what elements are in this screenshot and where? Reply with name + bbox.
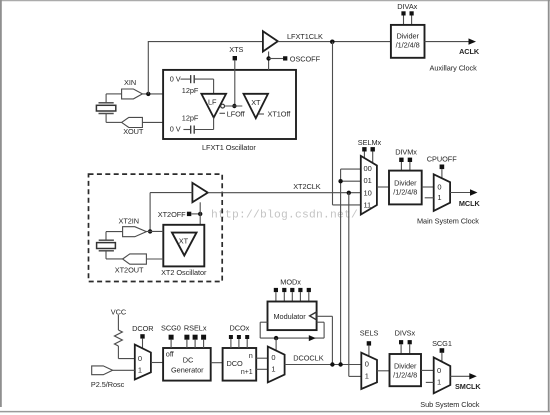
svg-text:0 V: 0 V (170, 125, 181, 134)
svg-text:CPUOFF: CPUOFF (427, 154, 457, 163)
svg-text:DCO: DCO (227, 359, 243, 368)
svg-text:XT2IN: XT2IN (119, 217, 140, 226)
svg-text:SCG1: SCG1 (432, 339, 452, 348)
svg-text:XT2OFF: XT2OFF (158, 210, 186, 219)
svg-text:off: off (166, 349, 175, 358)
svg-text:Modulator: Modulator (274, 312, 307, 321)
svg-text:1: 1 (138, 366, 142, 375)
svg-text:12pF: 12pF (182, 114, 199, 123)
svg-text:SELS: SELS (360, 329, 379, 338)
svg-text:MODx: MODx (280, 278, 301, 287)
svg-text:SELMx: SELMx (358, 138, 382, 147)
svg-text:0: 0 (437, 366, 441, 375)
svg-text:0 V: 0 V (170, 75, 181, 84)
svg-text:OSCOFF: OSCOFF (290, 54, 321, 63)
svg-text:XTS: XTS (229, 45, 243, 54)
svg-text:XOUT: XOUT (123, 127, 144, 136)
svg-text:P2.5/Rosc: P2.5/Rosc (91, 380, 125, 389)
svg-text:n: n (249, 353, 253, 360)
svg-text:LFXT1CLK: LFXT1CLK (287, 32, 323, 41)
svg-text:DCOx: DCOx (230, 324, 250, 333)
svg-text:ACLK: ACLK (459, 47, 480, 56)
svg-text:11: 11 (364, 201, 372, 210)
svg-text:SMCLK: SMCLK (455, 382, 481, 391)
svg-text:XT2OUT: XT2OUT (115, 266, 144, 275)
svg-text:0: 0 (138, 354, 142, 363)
svg-text:XT2 Oscillator: XT2 Oscillator (161, 268, 207, 277)
svg-text:XT: XT (179, 236, 189, 245)
svg-text:1: 1 (271, 365, 275, 374)
svg-text:1: 1 (437, 193, 441, 202)
svg-text:Generator: Generator (171, 366, 204, 375)
svg-text:http://blog.csdn.net/: http://blog.csdn.net/ (211, 210, 358, 222)
svg-text:00: 00 (364, 164, 372, 173)
svg-text:RSELx: RSELx (184, 324, 207, 333)
svg-text:n+1: n+1 (241, 369, 253, 376)
svg-text:Sub System Clock: Sub System Clock (420, 400, 479, 409)
svg-text:0: 0 (271, 353, 275, 362)
svg-text:1: 1 (365, 372, 369, 381)
svg-text:MCLK: MCLK (459, 199, 481, 208)
svg-text:/1/2/4/8: /1/2/4/8 (393, 370, 417, 379)
svg-text:0: 0 (437, 182, 441, 191)
svg-text:LFXT1 Oscillator: LFXT1 Oscillator (202, 143, 256, 152)
svg-text:DIVAx: DIVAx (397, 2, 417, 11)
svg-text:XT: XT (251, 98, 261, 107)
svg-text:DIVMx: DIVMx (395, 148, 417, 157)
svg-text:XT2CLK: XT2CLK (293, 182, 321, 191)
svg-text:SCG0: SCG0 (161, 324, 181, 333)
svg-text:01: 01 (364, 176, 372, 185)
svg-text:10: 10 (364, 188, 372, 197)
svg-text:Main System Clock: Main System Clock (417, 217, 479, 226)
svg-text:XT1Off: XT1Off (268, 109, 292, 118)
svg-text:DCOR: DCOR (132, 324, 153, 333)
svg-text:LF: LF (208, 97, 217, 106)
svg-text:DC: DC (183, 355, 194, 364)
svg-text:XIN: XIN (124, 78, 136, 87)
svg-text:Auxillary Clock: Auxillary Clock (430, 63, 478, 72)
svg-text:12pF: 12pF (182, 86, 199, 95)
svg-text:1: 1 (437, 377, 441, 386)
svg-text:/1/2/4/8: /1/2/4/8 (393, 187, 417, 196)
svg-text:0: 0 (365, 360, 369, 369)
svg-text:DCOCLK: DCOCLK (293, 353, 323, 362)
svg-text:DIVSx: DIVSx (395, 329, 416, 338)
svg-text:LFOff: LFOff (227, 109, 246, 118)
svg-text:/1/2/4/8: /1/2/4/8 (396, 40, 420, 49)
